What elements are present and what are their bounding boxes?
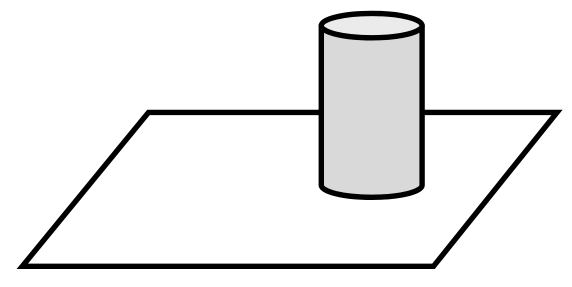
cylinder top face: [321, 13, 422, 37]
plane (horizontal parallelogram): [22, 112, 557, 266]
cylinder body: [321, 26, 422, 198]
